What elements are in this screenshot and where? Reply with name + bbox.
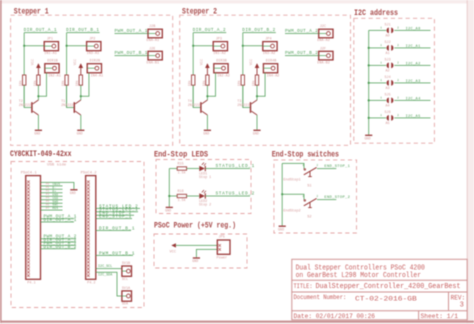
resistor R6 10k	[206, 75, 209, 85]
wire STATUS_LED_2 (kit2)	[96, 207, 140, 209]
svg-text:10k: 10k	[251, 80, 255, 86]
svg-text:J2C: J2C	[320, 25, 326, 29]
svg-text:GND: GND	[253, 132, 259, 136]
wire to S1	[282, 163, 304, 168]
ground below T1	[77, 130, 85, 136]
connector PSoC4.1	[26, 176, 41, 280]
svg-text:on GearBest L298 Motor Control: on GearBest L298 Motor Controller	[296, 272, 421, 280]
section box I2C address	[354, 18, 435, 143]
svg-text:EndStop1: EndStop1	[283, 178, 300, 183]
svg-text:DIR4B: DIR4B	[266, 60, 277, 64]
wire to R16	[169, 195, 177, 197]
svg-text:STATUS_LED_2: STATUS_LED_2	[216, 192, 255, 197]
svg-text:2N2222: 2N2222	[188, 104, 200, 108]
junction I2C row 4	[368, 82, 370, 84]
wire from SJ2	[394, 47, 430, 49]
svg-text:PSoC4.1: PSoC4.1	[21, 172, 38, 176]
VCC power arrow	[205, 63, 210, 75]
svg-text:IN3-A2: IN3-A2	[263, 52, 276, 56]
svg-text:VCC: VCC	[170, 250, 176, 254]
svg-text:3: 3	[460, 302, 464, 310]
wire vertical DIR_OUT_B_2	[242, 33, 244, 108]
wire pin stub SWD	[41, 202, 63, 204]
svg-text:TITLE:: TITLE:	[294, 283, 313, 290]
svg-text:End-Stop LEDS: End-Stop LEDS	[154, 149, 208, 159]
svg-text:I2C_A3: I2C_A3	[406, 80, 421, 84]
svg-text:SJ5: SJ5	[385, 94, 391, 98]
VCC power arrow	[79, 63, 84, 75]
section box Stepper 2	[180, 15, 351, 145]
wire pin stub VBUS	[41, 185, 63, 187]
svg-text:10k: 10k	[75, 80, 79, 86]
wire I2C_SCL	[96, 268, 122, 270]
svg-text:SJ4: SJ4	[385, 76, 391, 80]
ground below T2	[34, 130, 42, 136]
svg-text:R15: R15	[178, 163, 184, 167]
resistor R1 10k	[23, 75, 26, 85]
VCC power arrow	[255, 63, 260, 75]
svg-text:DIR_OUT_A_1: DIR_OUT_A_1	[44, 218, 77, 223]
wire to SJ5	[369, 99, 387, 101]
wire PWM_OUT_A_2	[285, 33, 319, 35]
svg-text:GND: GND	[77, 132, 83, 136]
svg-text:A2: A2	[386, 70, 390, 74]
wire to IN1-A1	[24, 45, 44, 47]
svg-text:VCC: VCC	[32, 59, 36, 65]
wire DIR_OUT_B_1 (kit2)	[96, 230, 131, 232]
svg-text:SV1B: SV1B	[122, 262, 130, 266]
wire PWM_OUT_B_2	[285, 55, 319, 57]
svg-text:ENA-A1: ENA-A1	[147, 39, 160, 43]
wire PWM_OUT_A_1	[115, 33, 149, 35]
wire DIR_OUT_A_1 (kit)	[41, 221, 74, 223]
header pin J2C (ENA-A2)	[319, 29, 333, 38]
wire END_STOP_2 (kit2)	[96, 214, 134, 216]
resistor R16 1.5k	[177, 194, 186, 197]
svg-text:10k: 10k	[19, 80, 23, 86]
svg-text:GND: GND	[34, 132, 40, 136]
svg-text:A3: A3	[386, 87, 390, 91]
wire pin stub GND	[41, 195, 63, 197]
wire to SJ1	[369, 29, 387, 31]
VCC power arrow	[36, 63, 41, 75]
wire emitter to ground	[37, 115, 39, 130]
ground I2C	[365, 135, 373, 141]
wire VCC to power header	[176, 244, 217, 246]
svg-text:JP3: JP3	[216, 37, 222, 41]
svg-text:I2C_A1: I2C_A1	[406, 45, 422, 49]
wire collector node	[37, 85, 39, 100]
svg-text:RES: RES	[52, 207, 58, 210]
svg-text:JP5: JP5	[219, 236, 225, 240]
resistor R2 10k	[37, 75, 40, 85]
wire DIR_OUT_A_2 (kit)	[41, 241, 76, 243]
wire I2C_SDA	[96, 272, 122, 296]
wire from SJ6	[394, 117, 430, 119]
wire DIR_OUT_A_2 stub	[193, 32, 226, 34]
junction collector node	[206, 95, 208, 97]
solder jumper SJ2	[387, 45, 394, 51]
section box End-Stop LEDS	[156, 160, 251, 214]
wire to SJ6	[369, 117, 387, 119]
transistor T4 2N2222	[201, 100, 208, 116]
wire DIR_OUT_B_2 (kit)	[41, 248, 76, 250]
wire STATUS_LED_1 (kit2)	[96, 211, 138, 213]
junction collector node	[80, 95, 82, 97]
wire R15 to LED1	[187, 168, 200, 170]
svg-text:P4.2: P4.2	[87, 281, 95, 285]
title block Sheet divider	[418, 311, 420, 320]
junction at DIR_OUT_A_2	[192, 45, 194, 47]
svg-text:VCC: VCC	[250, 59, 254, 65]
wire to S2	[282, 194, 304, 199]
wire emitter to ground	[80, 115, 82, 130]
wire END_STOP_1 out	[317, 168, 336, 170]
ground End-Stop LEDS	[165, 207, 173, 213]
svg-text:JP1: JP1	[47, 37, 53, 41]
svg-text:CT-02-2016-GB: CT-02-2016-GB	[355, 296, 417, 303]
wire collector node	[80, 85, 82, 100]
transistor T3 2N2222	[251, 100, 258, 116]
svg-text:J2F: J2F	[320, 47, 326, 51]
solder jumper SJ1	[387, 28, 394, 34]
svg-text:SJ3: SJ3	[385, 59, 391, 63]
wire from SJ5	[394, 99, 430, 101]
wire emitter to ground	[206, 115, 208, 130]
svg-text:10k: 10k	[237, 80, 241, 86]
junction switch bus	[281, 193, 283, 195]
section box End-Stop switches	[274, 160, 357, 233]
svg-text:End-Stop switches: End-Stop switches	[272, 149, 339, 159]
svg-text:DIR_OUT_B_2: DIR_OUT_B_2	[44, 245, 77, 250]
header pin JP4 (IN3-A2)	[263, 42, 277, 51]
svg-text:1.5k: 1.5k	[178, 198, 186, 203]
ground End-Stop switches	[278, 226, 286, 232]
wire base	[243, 85, 250, 107]
svg-text:A0: A0	[386, 35, 390, 39]
svg-text:SJ1: SJ1	[385, 24, 391, 28]
resistor R4 10k	[79, 75, 82, 85]
svg-text:END_STOP_1: END_STOP_1	[99, 215, 132, 220]
title block frame	[292, 259, 467, 320]
svg-text:GND: GND	[365, 137, 371, 141]
solder jumper SJ5	[387, 98, 394, 104]
svg-text:GND: GND	[192, 260, 198, 264]
title block line 3	[292, 310, 467, 312]
connector PSoC4.2	[86, 176, 96, 280]
svg-text:ENA-B2: ENA-B2	[317, 61, 330, 65]
svg-text:IN4-A2: IN4-A2	[267, 75, 280, 79]
wire power header to ground	[196, 249, 217, 257]
title block line 1	[292, 279, 467, 281]
svg-text:IN4-A1: IN4-A1	[91, 75, 104, 79]
header pin JP1 (IN1-A1)	[44, 42, 58, 51]
wire pin stub VDD	[41, 199, 63, 201]
svg-text:Power: Power	[217, 255, 228, 260]
wire to SJ4	[369, 82, 387, 84]
junction LED bus	[168, 195, 170, 197]
wire to IN1-A2	[193, 45, 213, 47]
wire DIR_OUT_B_2 stub	[243, 32, 276, 34]
ground below T3	[253, 130, 261, 136]
wire vertical DIR_OUT_B_1	[66, 33, 68, 108]
svg-text:GND: GND	[203, 132, 209, 136]
header pin JP3 (IN1-A2)	[213, 42, 227, 51]
svg-text:USB side: USB side	[47, 163, 67, 168]
svg-text:P7: P7	[46, 207, 50, 210]
svg-text:I2C address: I2C address	[354, 8, 398, 18]
svg-text:IN1-A1: IN1-A1	[44, 52, 57, 56]
svg-text:JP4: JP4	[265, 37, 271, 41]
header pin J2E (ENA-B1)	[148, 51, 162, 60]
svg-text:Stop 1: Stop 1	[199, 176, 211, 180]
switch S1	[304, 167, 317, 176]
svg-text:A4: A4	[386, 105, 390, 109]
svg-text:I2C_A4: I2C_A4	[406, 97, 422, 101]
wire base	[193, 85, 200, 107]
wire STATUS_LED_1 out	[205, 168, 250, 170]
svg-text:STATUS_LED_1: STATUS_LED_1	[216, 164, 255, 169]
resistor R8 10k	[255, 75, 258, 85]
wire pin stub SWC	[41, 206, 63, 208]
svg-text:EndStop2: EndStop2	[283, 209, 300, 214]
svg-text:DualStepper_Controller_4200_Ge: DualStepper_Controller_4200_GearBest	[316, 283, 461, 291]
wire R16 to LED2	[187, 195, 200, 197]
ground PSoC Power	[192, 258, 200, 264]
junction I2C row 6	[368, 117, 370, 119]
svg-text:REV:: REV:	[451, 295, 466, 302]
wire LED ground bus	[168, 169, 170, 207]
wire PWM_OUT_B_1	[115, 55, 149, 57]
wire pin stub RES	[41, 209, 63, 211]
wire pin stub D-	[41, 188, 63, 190]
svg-text:CY8CKIT-049-42xx: CY8CKIT-049-42xx	[10, 149, 72, 159]
transistor T1 2N2222	[74, 100, 81, 116]
svg-text:J2B: J2B	[149, 25, 155, 29]
svg-text:S1: S1	[307, 184, 311, 188]
svg-text:ENA-B1: ENA-B1	[147, 61, 160, 65]
header pin DIR2B (IN4-A1)	[87, 64, 101, 73]
power header JP5	[217, 240, 230, 254]
resistor R5 10k	[192, 75, 195, 85]
junction I2C row 5	[368, 99, 370, 101]
junction I2C row 3	[368, 64, 370, 66]
wire PWM_OUT_A_1 (kit)	[41, 218, 74, 220]
resistor R15 1.5k	[177, 167, 186, 170]
wire collector node	[206, 85, 208, 100]
svg-text:PWM_OUT_B_1: PWM_OUT_B_1	[99, 251, 135, 256]
ground below T4	[203, 130, 211, 136]
svg-text:GND: GND	[165, 210, 171, 214]
solder jumper SJ6	[387, 115, 394, 121]
wire PWM_OUT_A_2 (kit)	[41, 238, 76, 240]
svg-text:IN1-A2: IN1-A2	[213, 52, 226, 56]
svg-text:IN2-A2: IN2-A2	[217, 75, 230, 79]
svg-text:DIR1B: DIR1B	[47, 60, 58, 64]
svg-text:2N2222: 2N2222	[61, 104, 73, 108]
wire pin stub D+	[41, 192, 63, 194]
title block REV divider	[448, 292, 450, 311]
junction collector node	[256, 95, 258, 97]
wire collector node	[256, 85, 258, 100]
svg-text:10k: 10k	[188, 80, 192, 86]
header pin DIR1B (IN2-A1)	[45, 64, 59, 73]
svg-text:J2E: J2E	[149, 47, 155, 51]
header pin JP2 (IN3-A1)	[87, 42, 101, 51]
svg-text:A5: A5	[386, 122, 390, 126]
svg-text:END_STOP_1: END_STOP_1	[324, 165, 350, 169]
svg-text:10k: 10k	[33, 80, 37, 86]
wire END_STOP_1 (kit2)	[96, 218, 132, 220]
ground USB side	[70, 190, 78, 196]
svg-text:PSoC4.2: PSoC4.2	[81, 172, 98, 176]
svg-text:I2C_SDA: I2C_SDA	[98, 274, 113, 278]
wire from SJ3	[394, 64, 430, 66]
svg-text:SJ6: SJ6	[385, 111, 391, 115]
header pin SV1A (SDA)	[122, 291, 132, 301]
title block line 2	[292, 291, 467, 293]
junction collector node	[37, 95, 39, 97]
wire IN4-A1 to junction	[81, 73, 89, 96]
svg-text:Sheet: 1/1: Sheet: 1/1	[421, 313, 459, 320]
junction at DIR_OUT_B_1	[66, 45, 68, 47]
LED LED2	[199, 190, 206, 199]
wire base	[24, 85, 31, 107]
svg-text:SDA: SDA	[122, 303, 129, 307]
svg-text:10k: 10k	[202, 80, 206, 86]
wire vertical DIR_OUT_A_1	[23, 33, 25, 108]
svg-text:2N2222: 2N2222	[19, 104, 31, 108]
svg-text:DIR_OUT_B_1: DIR_OUT_B_1	[99, 226, 135, 231]
wire to ground (USB)	[41, 182, 74, 189]
wire from SJ4	[394, 82, 430, 84]
svg-text:I2C_A2: I2C_A2	[406, 62, 421, 66]
wire switch ground bus	[281, 163, 283, 225]
wire DIR_OUT_A_1 stub	[24, 32, 57, 34]
svg-text:A1: A1	[386, 52, 390, 56]
wire base	[67, 85, 74, 107]
svg-text:PSoC Power (+5V reg.): PSoC Power (+5V reg.)	[154, 220, 236, 230]
svg-text:P4.1: P4.1	[27, 281, 35, 285]
wire IN2-A2 to junction	[207, 73, 215, 96]
svg-text:ENA-A2: ENA-A2	[317, 39, 330, 43]
wire PWM_OUT_B_1 (kit2)	[96, 254, 133, 256]
resistor R7 10k	[241, 75, 244, 85]
header pin J2B (ENA-A1)	[148, 29, 162, 38]
svg-text:I2C_A0: I2C_A0	[406, 27, 421, 31]
svg-text:Stop 2: Stop 2	[199, 204, 211, 208]
wire to IN3-A2	[243, 45, 263, 47]
svg-text:1.5k: 1.5k	[178, 171, 186, 176]
wire to R15	[169, 168, 177, 170]
wire to SJ2	[369, 47, 387, 49]
svg-text:DIR2B: DIR2B	[90, 60, 101, 64]
wire I2C ground bus	[368, 30, 370, 134]
section box Stepper 1	[11, 15, 173, 145]
svg-text:I2C_A5: I2C_A5	[406, 115, 421, 119]
section box CY8CKIT	[11, 162, 144, 308]
svg-text:END_STOP_2: END_STOP_2	[324, 196, 350, 200]
wire PWM_OUT_B_2 (kit)	[41, 244, 76, 246]
wire STATUS_LED_2 out	[205, 195, 250, 197]
wire END_STOP_2 out	[317, 199, 336, 201]
header pin DIR4B (IN4-A2)	[263, 64, 277, 73]
solder jumper SJ3	[387, 63, 394, 69]
header pin DIR3B (IN2-A2)	[214, 64, 228, 73]
header pin SV1B (SCL)	[122, 266, 132, 276]
wire IN4-A2 to junction	[257, 73, 265, 96]
svg-text:R16: R16	[178, 190, 184, 194]
transistor T2 2N2222	[32, 100, 39, 116]
svg-text:SCL: SCL	[122, 278, 128, 282]
svg-text:GND: GND	[70, 192, 76, 196]
svg-text:VCC: VCC	[74, 59, 78, 65]
wire to SJ3	[369, 64, 387, 66]
svg-text:Document Number:: Document Number:	[294, 294, 347, 301]
svg-text:I2C_SCL: I2C_SCL	[98, 265, 112, 269]
VCC arrow (power in)	[171, 243, 176, 247]
junction at DIR_OUT_B_2	[242, 45, 244, 47]
svg-text:SV1A: SV1A	[122, 287, 131, 291]
svg-text:10k: 10k	[61, 80, 65, 86]
svg-text:2N2222: 2N2222	[237, 104, 249, 108]
svg-text:VCC: VCC	[201, 59, 205, 65]
svg-text:DIR3B: DIR3B	[216, 60, 227, 64]
svg-text:GND: GND	[278, 228, 284, 232]
wire IN2-A1 to junction	[38, 73, 46, 96]
wire vertical DIR_OUT_A_2	[192, 33, 194, 108]
wire DIR_OUT_B_1 stub	[67, 32, 100, 34]
svg-text:S2: S2	[307, 215, 311, 219]
section box PSoC Power	[154, 234, 247, 268]
resistor R3 10k	[65, 75, 68, 85]
junction I2C row 2	[368, 47, 370, 49]
wire to IN3-A1	[67, 45, 87, 47]
header pin J2F (ENA-B2)	[319, 51, 333, 60]
svg-text:IN3-A1: IN3-A1	[87, 52, 100, 56]
svg-text:IN2-A1: IN2-A1	[48, 75, 61, 79]
solder jumper SJ4	[387, 80, 394, 86]
junction at DIR_OUT_A_1	[23, 45, 25, 47]
switch S2	[304, 198, 317, 207]
svg-text:JP2: JP2	[89, 37, 95, 41]
wire emitter to ground	[256, 115, 258, 130]
svg-text:SJ2: SJ2	[385, 41, 391, 45]
wire from SJ1	[394, 29, 430, 31]
LED LED1	[199, 163, 206, 172]
svg-text:Date: 02/01/2017 00:26: Date: 02/01/2017 00:26	[294, 313, 376, 321]
